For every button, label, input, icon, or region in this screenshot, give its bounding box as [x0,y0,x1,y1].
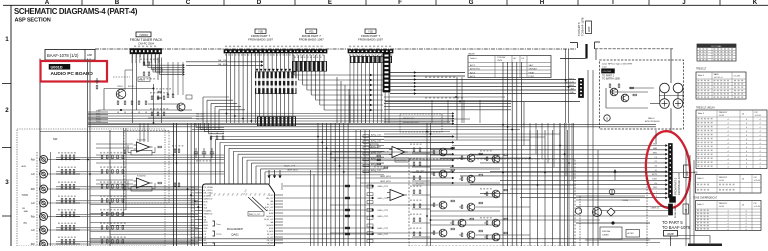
svg-text:4: 4 [745,214,746,216]
svg-text:2: 2 [5,107,9,114]
svg-text:SCL: SCL [204,205,207,207]
svg-text:SL_OUT: SL_OUT [416,183,425,185]
svg-text:+C2+B: +C2+B [754,206,761,208]
svg-text:BAAF-1078 (1/2): BAAF-1078 (1/2) [47,53,79,58]
svg-text:FROM PART 5: FROM PART 5 [674,203,677,218]
svg-text:CN 7602: CN 7602 [603,71,612,73]
svg-text:U001D: U001D [51,65,63,70]
svg-text:WRD: WRD [653,152,658,154]
svg-text:Zweir NPN or high or little NP: Zweir NPN or high or little NPN [602,63,633,66]
svg-text:D: D [257,0,262,6]
svg-text:TO BAAF-1078: TO BAAF-1078 [662,225,691,230]
svg-text:TRESCLT: TRESCLT [696,69,707,71]
svg-text:1: 1 [5,36,9,43]
svg-text:RM_OUT: RM_OUT [267,240,274,242]
svg-text:SAL_CSk: SAL_CSk [218,59,227,62]
svg-text:VALVE: VALVE [468,53,475,56]
svg-text:TVCD: TVCD [21,194,28,197]
svg-text:GND: GND [653,187,658,189]
svg-text:4: 4 [745,211,746,213]
svg-text:STBY: STBY [652,179,657,181]
svg-text:D0: D0 [655,165,657,167]
svg-text:FROM BAAF-1078: FROM BAAF-1078 [677,173,681,195]
svg-text:TRESCLT_RELAY: TRESCLT_RELAY [696,106,715,109]
svg-text:L: L [656,192,657,194]
svg-text:FROM BADG-1097: FROM BADG-1097 [248,37,273,41]
svg-text:NW: NW [53,137,58,141]
svg-text:FROM CN-1097: FROM CN-1097 [403,122,420,124]
svg-text:Y01: Y01 [309,30,314,34]
svg-text:CR/MM: CR/MM [622,200,629,202]
svg-text:TR601: TR601 [117,86,124,88]
svg-text:PABLO: PABLO [648,117,655,120]
svg-text:PC: PC [24,222,28,225]
svg-text:CASS_4722: CASS_4722 [377,233,389,236]
svg-text:AMP: AMP [588,26,591,32]
svg-text:+5/+B: +5/+B [719,180,725,182]
svg-text:PINET: PINET [529,72,536,74]
svg-text:SALM: SALM [569,84,575,87]
svg-text:TP604: TP604 [96,121,101,123]
svg-text:TONE OVERRIDE/CUT: TONE OVERRIDE/CUT [693,198,718,200]
svg-text:CASS_4722: CASS_4722 [377,185,389,188]
svg-text:+C2+B: +C2+B [755,115,762,117]
svg-text:CASS_4722: CASS_4722 [377,209,389,212]
svg-text:Tuner: Tuner [216,223,221,226]
svg-text:4: 4 [727,220,728,222]
svg-text:A05: A05 [685,208,688,213]
svg-text:TO BATRA-1085: TO BATRA-1085 [602,78,621,81]
svg-text:B: B [115,0,120,6]
svg-text:BC547 +: BC547 + [128,86,137,88]
svg-text:Table 9: Table 9 [697,204,704,206]
svg-text:J: J [682,0,686,6]
svg-text:AVRg_COR: AVRg_COR [371,169,382,172]
svg-text:LAMP_ATLB: LAMP_ATLB [380,175,392,178]
svg-text:DC V SEL: DC V SEL [712,46,723,48]
svg-text:SALT: SALT [529,64,535,67]
svg-text:4: 4 [727,229,728,231]
svg-text:LAMP_ATLB: LAMP_ATLB [380,180,392,183]
svg-text:LUMAR: LUMAR [602,234,609,237]
svg-text:+5/+12 +C: +5/+12 +C [714,77,724,79]
svg-text:ASP: ASP [87,53,92,57]
svg-text:FROM BADG-1097: FROM BADG-1097 [358,37,383,41]
svg-text:FROM BADG-1097: FROM BADG-1097 [299,37,324,41]
svg-text:VOUT: VOUT [269,195,273,197]
svg-text:TP601: TP601 [96,113,101,115]
svg-text:4: 4 [745,223,746,225]
svg-text:SAL_CDR: SAL_CDR [196,118,205,121]
svg-text:ON/DL: ON/DL [497,60,503,62]
svg-text:AVRg_COR: AVRg_COR [371,134,382,137]
svg-text:SM_OUT: SM_OUT [267,234,274,236]
svg-text:K: K [753,0,758,6]
svg-text:ATM PROBLEM: ATM PROBLEM [645,120,660,123]
svg-text:4: 4 [727,217,728,219]
svg-text:ASP SECTION: ASP SECTION [15,18,51,24]
svg-text:4: 4 [727,223,728,225]
svg-text:G: G [469,0,474,6]
svg-text:FB601: FB601 [139,80,146,82]
svg-text:RCA4220FP: RCA4220FP [227,227,243,231]
svg-text:AVC6: AVC6 [470,75,476,78]
svg-text:Table 9: Table 9 [698,113,705,115]
svg-text:4: 4 [727,211,728,213]
svg-text:FROM TUNER PACK: FROM TUNER PACK [130,38,163,42]
svg-text:RAM_PL_OUT: RAM_PL_OUT [249,213,260,216]
svg-text:VREF: VREF [204,228,208,230]
svg-text:CXA-PC CN04: CXA-PC CN04 [138,43,154,46]
svg-text:+5/+B: +5/+B [719,206,725,208]
svg-text:AVS6 0901: AVS6 0901 [470,68,481,71]
svg-text:TP602: TP602 [96,116,101,118]
svg-text:4: 4 [745,226,746,228]
svg-text:AMP: AMP [667,232,674,236]
svg-text:C-AVRNMBW: C-AVRNMBW [396,159,407,162]
svg-text:C: C [186,0,191,6]
svg-text:SAIDI: SAIDI [714,73,720,76]
svg-text:Table 9: Table 9 [698,75,705,77]
svg-text:AUDIO PC BOARD: AUDIO PC BOARD [51,71,94,77]
svg-text:Rch: Rch [31,216,36,219]
svg-text:E: E [328,0,332,6]
svg-text:Y02: Y02 [368,30,373,34]
svg-text:Later: Later [602,65,607,68]
svg-text:PONY: PONY [529,76,535,78]
svg-text:TYPE/LAY: TYPE/LAY [497,56,506,59]
svg-text:S: S [606,117,608,121]
svg-text:GND: GND [570,92,575,94]
svg-text:AVRg_COR: AVRg_COR [371,140,382,143]
svg-text:LM_OUT: LM_OUT [267,243,273,245]
svg-text:TRESCLT: TRESCLT [719,112,729,114]
svg-text:Table 9: Table 9 [697,178,704,180]
svg-text:I: I [612,0,614,6]
svg-text:SCHEMATIC DIAGRAMS-4 (PART-4): SCHEMATIC DIAGRAMS-4 (PART-4) [14,7,138,16]
svg-text:Rch: Rch [31,188,36,191]
svg-text:CASS_4722: CASS_4722 [377,215,389,218]
svg-text:AUX: AUX [22,165,27,168]
svg-text:4: 4 [745,229,746,231]
svg-text:AVC6: AVC6 [470,71,476,74]
svg-text:PALD/SYM: PALD/SYM [565,81,575,84]
svg-text:FL2600E06: FL2600E06 [137,176,146,178]
svg-text:FROM PART 5: FROM PART 5 [674,177,678,195]
svg-text:F: F [398,0,402,6]
svg-text:TO PART 5: TO PART 5 [577,22,581,36]
svg-text:TP603: TP603 [96,119,101,121]
svg-text:Y206X: Y206X [139,33,148,37]
svg-text:AVC2: AVC2 [470,64,476,67]
svg-text:Y05: Y05 [258,30,263,34]
svg-text:Lch: Lch [31,173,36,176]
svg-text:A04: A04 [685,171,689,176]
svg-text:4: 4 [745,217,746,219]
svg-text:TRESCLT: TRESCLT [719,177,729,179]
svg-text:4: 4 [727,226,728,228]
svg-text:CT+BX: CT+BX [734,76,741,78]
svg-text:SIN/SALT: SIN/SALT [529,68,539,71]
svg-text:SAgNL_COR: SAgNL_COR [284,164,296,167]
svg-text:HAD: HAD [24,210,29,213]
svg-text:Table 9: Table 9 [470,58,478,60]
svg-text:4: 4 [745,220,746,222]
svg-text:TO BAAF-1078: TO BAAF-1078 [581,17,585,36]
svg-text:LAMP_ATLB: LAMP_ATLB [287,169,299,172]
svg-text:TP600: TP600 [96,111,101,113]
svg-text:D1: D1 [655,170,657,172]
svg-text:H: H [540,0,545,6]
svg-text:+C2+B: +C2+B [754,180,761,182]
svg-text:CASS_4722: CASS_4722 [377,227,389,230]
svg-text:FL2600E06: FL2600E06 [137,140,146,142]
svg-text:A: A [45,0,50,6]
svg-text:QA01: QA01 [231,233,239,237]
svg-text:R/MODAL: R/MODAL [602,230,611,233]
svg-text:SSLN: SSLN [569,78,575,80]
svg-text:ALTER: ALTER [628,232,635,235]
svg-text:Lch: Lch [31,229,36,232]
svg-text:MUTE: MUTE [652,174,658,176]
svg-text:CRMP-10: CRMP-10 [651,208,659,210]
svg-text:BUS0: BUS0 [204,202,208,204]
svg-text:LINE: LINE [570,89,575,91]
svg-text:TV/CD: TV/CD [216,234,222,236]
svg-text:Rch: Rch [31,159,36,162]
svg-text:Lch: Lch [31,202,36,205]
svg-text:+5/+B: +5/+B [719,115,725,117]
svg-text:TRESCLT: TRESCLT [719,203,729,205]
svg-text:4: 4 [727,214,728,216]
svg-text:3: 3 [5,179,9,186]
